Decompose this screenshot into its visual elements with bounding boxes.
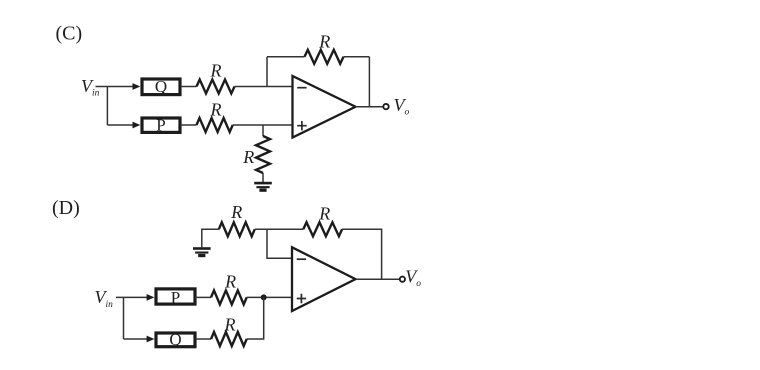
resistor R feedback (D) (303, 222, 342, 236)
block Q (D) (156, 330, 195, 349)
wire branch down from Vin (C) (106, 87, 108, 126)
svg-text:P: P (156, 116, 165, 135)
output terminal circle (C) (383, 104, 388, 109)
op-amp U1 (C) (293, 76, 356, 138)
svg-text:R: R (210, 61, 222, 81)
svg-text:P: P (171, 288, 180, 307)
arrow into Q box (D) (147, 336, 155, 343)
op-amp U2 (D) (292, 247, 356, 311)
arrow into P box (D) (147, 294, 155, 301)
resistor R upper input (D) (211, 290, 247, 304)
wire branch down from Vin (D) (123, 297, 125, 339)
plus sign non-inverting input (D) (297, 294, 306, 303)
wire feedback top right (C) (344, 56, 370, 58)
svg-text:Vo: Vo (405, 266, 421, 288)
wire tap down to ground resistor (C) (262, 125, 264, 136)
svg-text:R: R (210, 100, 222, 120)
junction node dot (D) (261, 294, 267, 300)
svg-text:Q: Q (169, 330, 181, 349)
wire P box to resistor (C) (182, 124, 197, 126)
ground (D) (193, 247, 211, 257)
resistor R lower input (D) (211, 332, 247, 346)
wire between feedback resistors (D) (255, 228, 304, 230)
block P (C) (142, 116, 180, 135)
wire resistor to non-inverting input (D) (247, 296, 292, 298)
arrow into P box (C) (133, 122, 141, 129)
svg-text:(D): (D) (52, 197, 80, 219)
svg-text:Vo: Vo (394, 95, 410, 117)
wire feedback right vertical (C) (368, 57, 370, 107)
svg-text:(C): (C) (56, 22, 83, 44)
resistor R feedback (C) (305, 50, 344, 64)
wire to P box (C) (107, 124, 133, 126)
wire feedback left vertical (C) (266, 57, 268, 87)
svg-text:R: R (230, 202, 242, 222)
svg-text:R: R (318, 32, 330, 52)
resistor R to ground (C) (256, 136, 270, 173)
resistor R lower input (C) (197, 118, 233, 132)
arrow into Q box (C) (133, 83, 141, 90)
minus sign inverting input (C) (297, 87, 306, 89)
wire tap to inverting input (D) (267, 229, 292, 258)
wire resistor up to junction (D) (247, 297, 264, 339)
wire Vin lead (C) (96, 86, 134, 88)
plus sign non-inverting input (C) (297, 121, 306, 130)
block P (D) (156, 288, 195, 307)
wire resistor to inverting input (C) (235, 86, 293, 88)
resistor R upper input (C) (197, 80, 235, 94)
svg-text:R: R (224, 272, 236, 292)
svg-text:R: R (318, 204, 330, 224)
wire Q box to resistor (C) (182, 86, 197, 88)
minus sign inverting input (D) (297, 258, 306, 260)
wire output (D) (356, 278, 400, 280)
svg-text:Vin: Vin (95, 287, 114, 310)
output terminal circle (D) (400, 277, 405, 282)
ground (C) (254, 182, 272, 192)
wire P box to resistor (D) (195, 296, 211, 298)
block Q (C) (142, 77, 180, 96)
svg-text:R: R (242, 147, 254, 167)
wire feedback top left (C) (267, 56, 305, 58)
wire to Q box (D) (124, 338, 148, 340)
wire feedback to output vertical (D) (342, 229, 382, 279)
wire resistor to non-inverting input (C) (233, 124, 293, 126)
svg-text:Q: Q (155, 77, 167, 96)
wire Vin lead (D) (116, 296, 147, 298)
wire ground stem (D) (202, 229, 219, 247)
wire resistor to ground symbol (C) (262, 173, 264, 182)
resistor R left of feedback (D) (219, 222, 255, 236)
wire output (C) (356, 106, 384, 108)
wire Q box to resistor (D) (195, 338, 211, 340)
svg-text:R: R (224, 315, 236, 335)
